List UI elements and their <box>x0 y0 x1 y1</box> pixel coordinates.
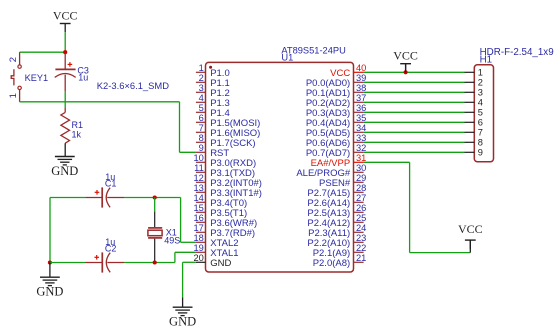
U1 pin 36 P0.3(AD3) <box>306 103 367 119</box>
svg-text:16: 16 <box>193 213 203 223</box>
wire into RST pin <box>180 151 196 153</box>
svg-text:2: 2 <box>199 73 204 83</box>
U1 pin 21 P2.0(A8) <box>313 253 367 269</box>
U1 pin 10 P3.0(RXD) <box>193 153 256 169</box>
U1 pin 27 P2.6(A14) <box>307 193 366 209</box>
svg-text:VCC: VCC <box>458 222 483 236</box>
svg-text:H1: H1 <box>480 55 493 66</box>
svg-text:5: 5 <box>199 103 204 113</box>
svg-text:9: 9 <box>478 148 483 158</box>
svg-text:27: 27 <box>356 193 366 203</box>
U1 pin 34 P0.5(AD5) <box>306 123 367 139</box>
wire C3 to row <box>64 91 66 107</box>
wire into XTAL1 pin <box>175 251 196 253</box>
svg-text:4: 4 <box>478 98 483 108</box>
U1 pin 3 P1.2 <box>196 83 230 99</box>
svg-text:28: 28 <box>356 183 366 193</box>
U1 pin 22 P2.1(A9) <box>313 243 367 259</box>
svg-text:2: 2 <box>478 78 483 88</box>
svg-text:9: 9 <box>199 143 204 153</box>
capacitor C2 left lead <box>85 262 102 264</box>
svg-text:1: 1 <box>478 68 483 78</box>
svg-text:25: 25 <box>356 213 366 223</box>
svg-text:26: 26 <box>356 203 366 213</box>
svg-text:8: 8 <box>199 133 204 143</box>
U1 pin 9 RST <box>196 143 229 159</box>
svg-text:P2.0(A8): P2.0(A8) <box>313 258 351 269</box>
ground under R1 <box>51 157 78 178</box>
label KEY1 <box>25 73 48 83</box>
svg-text:GND: GND <box>36 285 63 299</box>
switch KEY1 pin 2 number <box>8 57 19 62</box>
U1 pin 28 P2.7(A15) <box>307 183 366 199</box>
U1 pin 13 P3.3(INT1#) <box>193 183 261 199</box>
capacitor C3 bottom lead <box>64 75 66 92</box>
wire C2 to junction <box>124 262 174 264</box>
wire GND down <box>182 262 184 297</box>
svg-text:C1: C1 <box>105 178 117 188</box>
U1 pin 25 P2.4(A12) <box>307 213 366 229</box>
wire VCC stub <box>469 240 471 253</box>
junction C2/GND <box>48 260 52 264</box>
U1 pin-1 indicator dot <box>209 66 212 69</box>
U1 pin 26 P2.5(A13) <box>307 203 366 219</box>
svg-text:49S: 49S <box>164 236 180 246</box>
left vertical wire C1-C2 <box>49 198 51 263</box>
U1 pin 29 PSEN# <box>319 173 366 189</box>
capacitor C1 left lead <box>85 197 101 199</box>
svg-text:KEY1: KEY1 <box>25 73 48 83</box>
U1 pin 18 XTAL2 <box>193 233 238 249</box>
power symbol VCC (top left) <box>53 8 78 32</box>
svg-text:7: 7 <box>478 128 483 138</box>
capacitor C1 right lead <box>107 197 124 199</box>
svg-text:2: 2 <box>8 57 19 62</box>
switch KEY1 actuator bar <box>11 69 14 85</box>
H1 pin 7 <box>465 128 483 138</box>
label X1 value 49S <box>164 236 180 246</box>
svg-text:C2: C2 <box>105 243 117 253</box>
U1 pin 39 P0.0(AD0) <box>306 73 367 89</box>
ground below C2 <box>36 263 63 299</box>
U1 pin 33 P0.6(AD6) <box>306 133 367 149</box>
switch KEY1 contact circles <box>18 65 21 90</box>
wire C2 row left <box>50 262 85 264</box>
ground below U1 <box>169 297 196 328</box>
H1 pin 5 <box>465 108 483 118</box>
capacitor C1 plates <box>102 187 110 207</box>
U1 pin 24 P2.3(A11) <box>308 223 366 239</box>
label X1 <box>166 228 177 238</box>
U1 pin 23 P2.2(A10) <box>307 233 366 249</box>
svg-text:29: 29 <box>356 173 366 183</box>
junction on VCC wire <box>404 70 408 74</box>
wire up to XTAL1 <box>174 252 176 262</box>
crystal X1 bottom lead <box>154 239 156 263</box>
svg-text:1: 1 <box>8 93 19 98</box>
capacitor C2 plus sign <box>94 255 99 260</box>
junction C2/X1 <box>153 260 157 264</box>
svg-text:10: 10 <box>193 153 203 163</box>
svg-text:8: 8 <box>478 138 483 148</box>
label R1 value 1k <box>72 129 82 139</box>
U1 pin 35 P0.4(AD4) <box>306 113 367 129</box>
wire P0 bus row 4 <box>364 101 465 103</box>
label C1 <box>105 178 117 188</box>
wire EA#/VPP vertical <box>409 162 411 252</box>
label K2-3.6x6.1_SMD <box>97 80 169 91</box>
capacitor C3 plates <box>55 69 76 77</box>
wire into XTAL2 pin <box>181 241 196 243</box>
U1 pin 1 P1.0 <box>196 63 230 79</box>
U1 pin 37 P0.2(AD2) <box>306 93 367 109</box>
resistor R1 <box>61 107 70 143</box>
label C3 value 1u <box>78 73 88 83</box>
wire EA#/VPP to VCC <box>410 252 471 254</box>
svg-text:VCC: VCC <box>393 49 418 63</box>
capacitor C2 plates <box>102 252 110 272</box>
svg-text:21: 21 <box>356 253 366 263</box>
svg-text:30: 30 <box>356 163 366 173</box>
wire C1 to junction <box>124 197 180 199</box>
svg-text:K2-3.6×6.1_SMD: K2-3.6×6.1_SMD <box>97 80 169 91</box>
H1 pin 6 <box>465 118 483 128</box>
svg-text:17: 17 <box>193 223 203 233</box>
switch KEY1 pin 1 lead <box>19 90 21 102</box>
wire GND pin20 <box>183 261 196 263</box>
svg-text:12: 12 <box>193 173 203 183</box>
power symbol VCC (right) <box>458 222 483 249</box>
U1 pin 6 P1.5(MOSI) <box>196 113 260 129</box>
svg-text:3: 3 <box>199 83 204 93</box>
crystal X1 top lead <box>154 198 156 228</box>
wire C1 row left <box>50 197 85 199</box>
U1 pin 7 P1.6(MISO) <box>196 123 260 139</box>
crystal X1 <box>148 228 162 238</box>
svg-text:5: 5 <box>478 108 483 118</box>
capacitor C2 right lead <box>107 262 124 264</box>
switch KEY1 pin 1 number <box>8 93 19 98</box>
junction C1/X1 <box>153 195 157 199</box>
svg-text:3: 3 <box>478 88 483 98</box>
resistor R1 bottom lead <box>64 143 66 156</box>
wire P0 bus row 5 <box>364 111 465 113</box>
svg-text:1: 1 <box>199 63 204 73</box>
H1 pin 9 <box>465 148 483 158</box>
wire P0 bus row 6 <box>364 121 465 123</box>
power symbol VCC (above header wire) <box>393 49 418 73</box>
svg-text:1k: 1k <box>72 129 82 139</box>
H1 pin 2 <box>465 78 483 88</box>
svg-text:VCC: VCC <box>53 8 78 22</box>
svg-text:1u: 1u <box>78 73 88 83</box>
U1 pin 2 P1.1 <box>196 73 230 89</box>
svg-text:6: 6 <box>478 118 483 128</box>
U1 pin 30 ALE/PROG# <box>296 163 366 179</box>
svg-text:6: 6 <box>199 113 204 123</box>
junction VCC/KEY1/C3 <box>63 50 67 54</box>
U1 pin 15 P3.5(T1) <box>193 203 247 219</box>
label C1 value 1u <box>105 172 115 182</box>
op-amp U1 body AT89S51-24PU <box>206 62 354 272</box>
svg-text:23: 23 <box>356 233 366 243</box>
wire top row to KEY1 <box>20 51 66 53</box>
wire P0 bus row 7 <box>364 131 465 133</box>
wire P0 bus row 9 <box>364 151 465 153</box>
wire down to XTAL2 <box>180 198 182 243</box>
label U1 designator <box>281 52 293 62</box>
U1 pin 5 P1.4 <box>196 103 230 119</box>
connector H1 body HDR-F-2.54_1x9 <box>474 65 493 162</box>
label C2 value 1u <box>105 237 115 247</box>
wire P0 bus row 2 <box>364 81 465 83</box>
U1 pin 31 EA#/VPP <box>311 153 367 169</box>
switch KEY1 pin 2 lead <box>19 52 21 65</box>
wire P0 bus row 8 <box>364 141 465 143</box>
label C2 <box>105 243 117 253</box>
H1 pin 8 <box>465 138 483 148</box>
wire VCC to junction <box>64 32 66 52</box>
wire P0 bus row 3 <box>364 91 465 93</box>
svg-text:13: 13 <box>193 183 203 193</box>
svg-text:4: 4 <box>199 93 204 103</box>
label H1 designator <box>480 55 493 66</box>
svg-text:GND: GND <box>169 315 196 329</box>
H1 pin 3 <box>465 88 483 98</box>
U1 pin 19 XTAL1 <box>193 243 238 259</box>
capacitor C1 plus sign <box>95 190 100 195</box>
svg-text:24: 24 <box>356 223 366 233</box>
U1 pin 16 P3.6(WR#) <box>193 213 257 229</box>
U1 pin 20 GND <box>193 253 231 269</box>
capacitor C3 top lead <box>64 53 66 69</box>
wire P0 bus row 1 <box>364 71 465 73</box>
U1 pin 14 P3.4(T0) <box>193 193 247 209</box>
label C3 <box>77 66 89 76</box>
U1 pin 12 P3.2(INT0#) <box>193 173 261 189</box>
svg-text:14: 14 <box>193 193 203 203</box>
capacitor C3 plus sign <box>68 62 73 67</box>
label HDR-F-2.54_1x9 <box>480 47 554 58</box>
wire down to RST <box>179 102 181 153</box>
U1 pin 11 P3.1(TXD) <box>194 163 255 179</box>
label AT89S51-24PU <box>281 45 345 55</box>
H1 pin 4 <box>465 98 483 108</box>
svg-text:GND: GND <box>210 258 231 269</box>
U1 pin 38 P0.1(AD1) <box>306 83 367 99</box>
svg-text:11: 11 <box>194 163 204 173</box>
wire EA#/VPP horizontal <box>364 161 410 163</box>
svg-text:22: 22 <box>356 243 366 253</box>
U1 pin 40 VCC <box>330 63 366 79</box>
U1 pin 8 P1.7(SCK) <box>196 133 256 149</box>
U1 pin 4 P1.3 <box>196 93 230 109</box>
U1 pin 17 P3.7(RD#) <box>193 223 255 239</box>
wire KEY1/C3/R1 row <box>20 101 180 103</box>
svg-text:15: 15 <box>193 203 203 213</box>
U1 pin 32 P0.7(AD7) <box>306 143 367 159</box>
svg-text:U1: U1 <box>281 52 293 62</box>
svg-text:7: 7 <box>199 123 204 133</box>
label R1 <box>72 120 84 130</box>
H1 pin 1 <box>465 68 483 78</box>
svg-text:GND: GND <box>51 164 78 178</box>
